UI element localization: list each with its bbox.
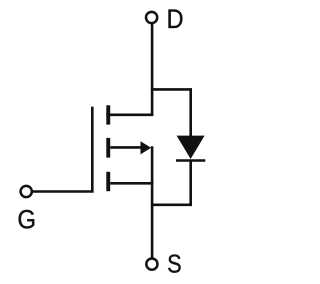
label D — [169, 10, 183, 29]
wire diode anode vertical — [189, 88, 192, 137]
wire source vertical — [151, 146, 154, 258]
wire drain vertical — [151, 23, 154, 115]
terminal D — [146, 12, 157, 23]
diode body diode — [176, 136, 205, 161]
label S — [168, 255, 180, 273]
wire drain branch horizontal — [151, 88, 192, 91]
MOSFET channel bar body — [106, 138, 110, 158]
MOSFET gate line — [91, 107, 94, 192]
wire diode cathode vertical — [189, 161, 192, 207]
MOSFET channel bar source — [106, 172, 110, 191]
wire diode rejoin horizontal — [151, 204, 192, 207]
MOSFET channel bar drain — [106, 105, 110, 124]
MOSFET body lead with arrow — [110, 141, 151, 154]
terminal G — [21, 186, 32, 197]
wire gate horizontal — [32, 190, 94, 193]
label G — [19, 210, 35, 229]
MOSFET drain lead — [106, 114, 153, 117]
terminal S — [146, 259, 157, 270]
MOSFET source lead — [110, 182, 153, 185]
